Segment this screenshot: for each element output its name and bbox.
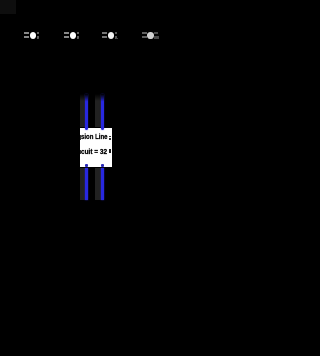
text line 2 clipped glyph sliver ('r' of circuit) <box>79 150 82 154</box>
tooltip info box <box>80 128 112 168</box>
lamp L3 <box>102 32 107 34</box>
transmission line conductor 1, lower segment (dark bar) <box>80 168 85 201</box>
lamp L2 <box>64 32 69 34</box>
conductor 1 current trace (blue), lower <box>85 168 87 201</box>
text line 2: clipped glyph blob at right edge <box>109 149 112 153</box>
transmission line conductor 2, lower segment (dark bar) <box>95 168 101 201</box>
conductor 1 current trace (blue), upper <box>85 94 87 131</box>
text line 1: '=' right edge marks <box>109 136 111 137</box>
conductor 2 current trace (blue), lower <box>101 168 104 201</box>
panel: top-left dark square <box>0 0 16 14</box>
lamp L4 <box>142 32 147 34</box>
text line 1 clipped glyph sliver ('s' of Transmission) <box>79 135 82 139</box>
conductor 2 current trace (blue), upper <box>101 94 104 131</box>
text line 2: 'cuit = 32' <box>81 149 107 156</box>
conductor 1 blue dot above box bottom edge <box>85 164 87 166</box>
transmission line conductor 1, upper segment (dark bar) <box>80 94 85 127</box>
transmission line conductor 2, upper segment (dark bar) <box>95 94 101 127</box>
lamp L1 <box>24 32 29 34</box>
conductor 2 blue dot above box bottom edge <box>101 164 104 166</box>
text line 1: 'sion Line' <box>81 133 108 140</box>
